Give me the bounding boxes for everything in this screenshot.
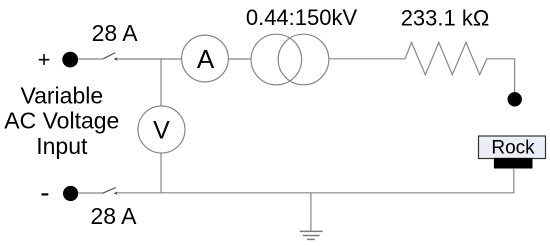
resistor R1 (zigzag) xyxy=(405,42,487,74)
svg-text:Input: Input xyxy=(36,133,88,159)
wire: rock electrode down to bottom rail xyxy=(513,169,515,193)
svg-text:V: V xyxy=(153,116,170,144)
wire: - terminal to bottom switch xyxy=(78,192,102,194)
wire: + terminal to top switch xyxy=(78,58,103,60)
load: Rock sample box xyxy=(479,136,546,159)
wire: bottom rail (return path) xyxy=(118,192,515,194)
node: high-voltage electrode dot xyxy=(508,92,522,106)
ammeter U1 xyxy=(182,35,229,82)
transformer T1 primary winding xyxy=(251,34,302,85)
svg-text:0.44:150kV: 0.44:150kV xyxy=(246,5,358,30)
svg-text:-: - xyxy=(40,177,49,208)
terminal node: positive input dot xyxy=(62,52,78,68)
wire: resistor to top-right corner then down to electrode node xyxy=(487,59,515,93)
wire: voltmeter to bottom rail xyxy=(160,153,162,193)
voltmeter U2 xyxy=(138,106,185,153)
switch S1 top (open blade) xyxy=(103,53,115,59)
wire: transformer to resistor xyxy=(329,58,405,60)
svg-text:A: A xyxy=(197,44,215,74)
svg-text:Variable: Variable xyxy=(20,82,103,108)
wire: ground stem from bottom rail xyxy=(310,193,312,231)
svg-text:233.1 kΩ: 233.1 kΩ xyxy=(401,5,490,30)
wire: top switch to ammeter (junction with voltmeter branch at x=161) xyxy=(117,58,181,60)
svg-text:Rock: Rock xyxy=(491,138,535,159)
switch S2 bottom (open blade) xyxy=(102,188,115,194)
switch S1 top contact arrowhead xyxy=(114,57,118,60)
electrode plate under rock (solid bar) xyxy=(494,158,533,169)
svg-text:AC Voltage: AC Voltage xyxy=(4,108,119,134)
switch S2 bottom contact arrowhead xyxy=(114,192,118,195)
svg-text:+: + xyxy=(38,47,51,72)
wire: voltmeter branch from top rail xyxy=(160,59,162,106)
ground symbol (3 bars) xyxy=(300,231,323,239)
wire: ammeter to transformer xyxy=(228,58,250,60)
svg-text:28 A: 28 A xyxy=(90,203,137,229)
terminal node: negative input dot xyxy=(63,186,78,201)
svg-text:28 A: 28 A xyxy=(92,20,139,46)
transformer T1 secondary winding xyxy=(278,34,329,85)
